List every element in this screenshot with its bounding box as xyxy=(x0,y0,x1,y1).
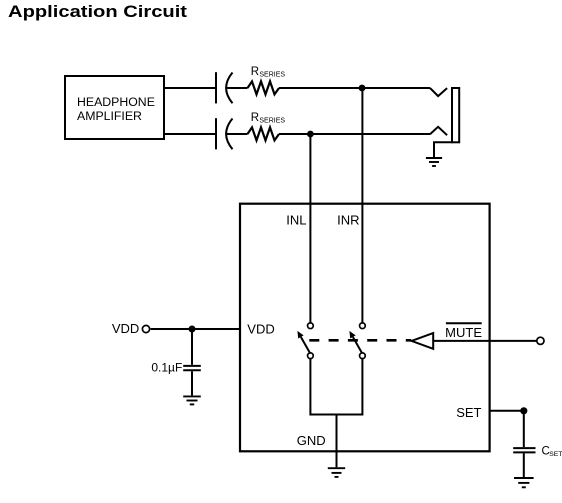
terminal VDD (open circle) xyxy=(142,325,149,332)
svg-text:MUTE: MUTE xyxy=(445,325,482,340)
svg-text:HEADPHONE: HEADPHONE xyxy=(77,95,155,109)
wire amp bottom output to C2 xyxy=(164,133,215,135)
terminal MUTE (open circle) xyxy=(537,337,544,344)
label RSERIES (bottom) xyxy=(251,112,286,125)
inverter U3 (mute buffer) xyxy=(412,333,434,349)
label MUTE with overline xyxy=(445,323,482,340)
wire SET dot to C4 xyxy=(523,411,525,447)
resistor R2 RSERIES (bottom) xyxy=(248,127,280,140)
ground (jack) xyxy=(426,158,442,166)
node INL junction dot on bottom wire xyxy=(307,131,314,138)
svg-text:VDD: VDD xyxy=(112,321,139,336)
node VDD junction dot xyxy=(189,326,196,333)
headphone jack J1 ring contact xyxy=(430,127,447,135)
wire GND pin xyxy=(336,415,338,468)
wire switch outputs to gnd bus xyxy=(310,359,362,415)
ground (C4) xyxy=(514,478,534,487)
wire VDD dot down to C3 xyxy=(191,329,193,365)
label CSET xyxy=(542,446,562,459)
capacitor C1 (top coupling cap) xyxy=(216,72,233,103)
svg-text:INL: INL xyxy=(286,213,306,228)
capacitor C2 (bottom coupling cap) xyxy=(216,118,233,149)
resistor R1 RSERIES (top) xyxy=(248,81,280,94)
svg-text:Application Circuit: Application Circuit xyxy=(8,1,187,20)
wire INR vertical into IC xyxy=(361,88,363,323)
wire C3 to ground xyxy=(191,371,193,395)
wire INL vertical into IC xyxy=(309,134,311,323)
node SET junction dot xyxy=(520,407,527,414)
headphone jack J1 tip contact xyxy=(430,88,447,96)
svg-text:R: R xyxy=(251,112,259,124)
wire C1 to R1 xyxy=(227,87,248,89)
wire dashed mute control line xyxy=(309,339,411,342)
svg-text:VDD: VDD xyxy=(247,322,274,337)
headphone jack J1 sleeve xyxy=(452,88,459,142)
svg-text:R: R xyxy=(251,66,259,78)
svg-text:SET: SET xyxy=(549,451,562,458)
svg-text:SET: SET xyxy=(456,405,481,420)
IC box U2 xyxy=(240,204,490,452)
ground (C3) xyxy=(183,396,201,404)
svg-text:SERIES: SERIES xyxy=(259,118,285,125)
wire jack sleeve to ground xyxy=(434,142,452,157)
switch SW2 (right) xyxy=(349,323,365,359)
label RSERIES (top) xyxy=(251,66,286,79)
svg-text:SERIES: SERIES xyxy=(259,72,285,79)
wire VDD to IC xyxy=(151,328,240,330)
wire C4 to ground xyxy=(523,453,525,477)
node INR junction dot on top wire xyxy=(359,85,366,92)
wire R2 to jack ring xyxy=(279,133,430,135)
svg-text:AMPLIFIER: AMPLIFIER xyxy=(77,109,142,123)
wire MUTE input xyxy=(433,340,536,342)
ground (GND pin) xyxy=(328,468,345,477)
wire R1 to jack tip xyxy=(279,87,430,89)
svg-text:INR: INR xyxy=(337,213,359,228)
wire SET pin xyxy=(490,410,524,412)
wire amp top output to C1 xyxy=(164,87,215,89)
switch SW1 (left) xyxy=(297,323,313,359)
wire C2 to R2 xyxy=(227,133,248,135)
capacitor C3 0.1uF xyxy=(183,366,201,370)
svg-text:GND: GND xyxy=(297,433,326,448)
capacitor C4 CSET xyxy=(513,448,535,452)
svg-text:0.1µF: 0.1µF xyxy=(151,360,182,374)
headphone amplifier block U1 xyxy=(65,76,164,139)
